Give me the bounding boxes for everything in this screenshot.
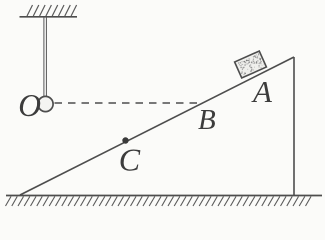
ground (6, 195, 322, 197)
svg-text:C: C (119, 142, 141, 178)
point C (122, 137, 128, 143)
svg-text:O: O (18, 88, 41, 123)
dashed horizontal line (55, 102, 200, 104)
ground hatching (6, 197, 312, 207)
ceiling (20, 16, 78, 18)
svg-text:A: A (251, 74, 273, 109)
svg-text:B: B (198, 104, 216, 136)
incline vertical side (293, 57, 295, 196)
pendulum bob O (38, 96, 53, 111)
block A (235, 51, 267, 78)
pendulum string (44, 17, 47, 97)
incline hypotenuse (20, 57, 294, 195)
ceiling hatching (27, 5, 77, 16)
